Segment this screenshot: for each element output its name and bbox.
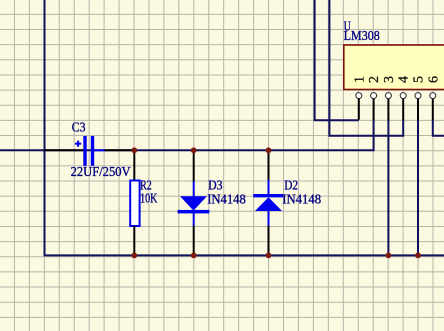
svg-text:4: 4: [397, 76, 412, 83]
pin 6 of U: [426, 76, 441, 120]
pin 5 of U: [412, 76, 427, 120]
wire: U pin 3 down to bottom rail: [387, 119, 389, 255]
wire: black segment left of C3: [45, 149, 84, 151]
svg-text:5: 5: [412, 76, 427, 83]
wire: node to R2 top: [133, 150, 135, 181]
svg-text:1: 1: [352, 76, 367, 83]
svg-text:2: 2: [367, 76, 382, 83]
svg-text:10K: 10K: [140, 192, 157, 207]
svg-text:IN4148: IN4148: [282, 193, 321, 208]
capacitor C3: [75, 136, 105, 166]
wire: D2 anode to rail: [268, 226, 270, 256]
svg-text:C3: C3: [72, 120, 86, 135]
wire: left vertical bus and bottom rail: [45, 0, 444, 255]
svg-text:22UF/250V: 22UF/250V: [71, 165, 131, 180]
svg-text:D2: D2: [284, 179, 298, 194]
svg-text:IN4148: IN4148: [207, 193, 246, 208]
wire: D3 cathode to rail: [193, 226, 195, 256]
pin 3 of U: [382, 76, 397, 120]
junction node R2 top: [131, 147, 137, 153]
svg-text:6: 6: [426, 76, 441, 83]
wire: vertical wire A to U pin 1: [315, 0, 359, 120]
op-amp U LM308 body: [344, 45, 444, 90]
resistor R2: [130, 181, 139, 227]
junction node D2 bottom: [266, 253, 272, 259]
diode D3: [178, 181, 210, 225]
junction node pin5 rail: [415, 253, 421, 259]
junction node D3 top: [191, 147, 197, 153]
junction node R2 bottom: [131, 253, 137, 259]
pin 2 of U: [367, 76, 382, 120]
svg-text:3: 3: [382, 76, 397, 83]
wire: R2 bottom to rail: [133, 226, 135, 255]
wire: node to D2 cathode: [268, 150, 270, 180]
wire: vertical wire B to U pin 4: [329, 0, 403, 136]
wire: U pin 5 down to bottom rail: [417, 119, 419, 255]
pin 1 of U: [352, 76, 367, 120]
wire: node to D3 anode: [193, 150, 195, 181]
junction node D3 bottom: [191, 253, 197, 259]
wire: U pin 6 to right edge: [433, 119, 444, 136]
wire: main horizontal net to U pin 2: [0, 119, 374, 150]
junction node pin3 rail: [386, 253, 392, 259]
pin 4 of U: [397, 76, 412, 120]
svg-text:LM308: LM308: [344, 29, 380, 44]
wire: black segment C3 to R2 node: [105, 149, 135, 151]
svg-text:D3: D3: [208, 179, 223, 194]
diode D2: [253, 180, 283, 226]
junction node D2 top: [266, 147, 272, 153]
